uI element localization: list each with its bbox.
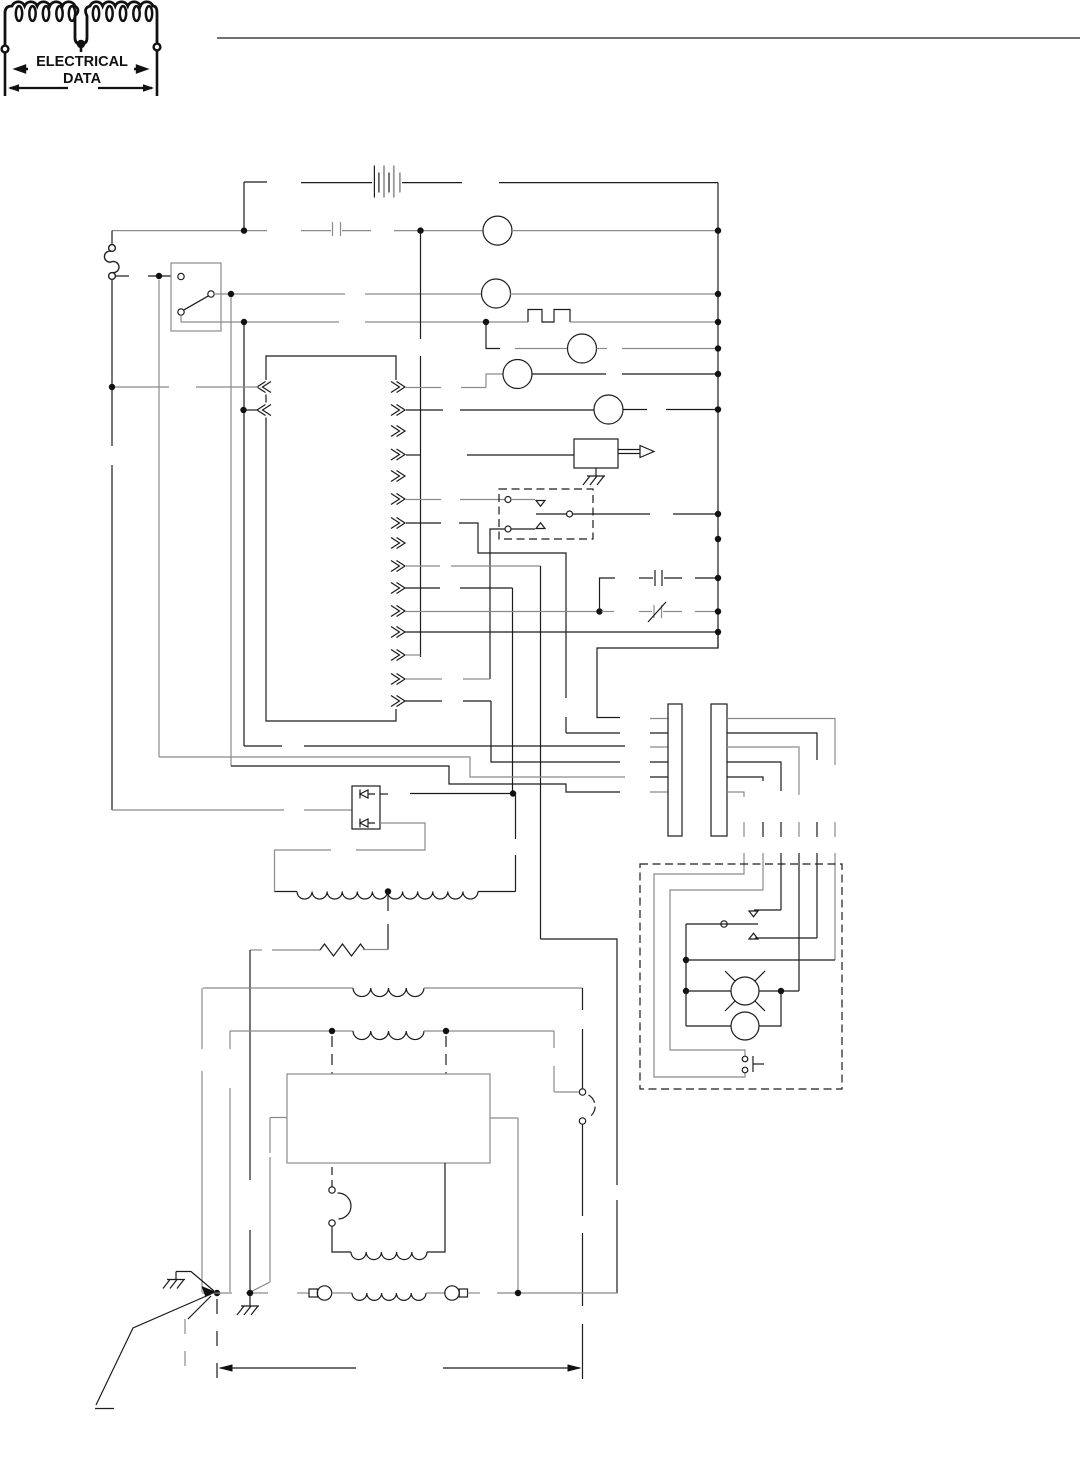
header rule: [217, 37, 1080, 39]
battery B1: [374, 166, 400, 198]
wire L4 to bus: [623, 409, 647, 411]
wire L3 to bus: [532, 373, 607, 375]
U1 right pin 4: [391, 449, 405, 460]
wire pin15 route: [405, 700, 442, 702]
thermal breaker symbol: [528, 310, 570, 323]
dimension line: [220, 1367, 356, 1369]
wire arm drop: [685, 924, 687, 991]
wire row R4 left: [244, 321, 339, 323]
primary coil T3: [351, 1252, 427, 1260]
junction rectifier / pin10 line: [510, 790, 516, 796]
wire gauge row: [686, 1025, 731, 1027]
logo: ELECTRICAL DATA stator emblem: [5, 2, 157, 51]
junction L3 / bus: [715, 371, 721, 377]
bus vertical right: [717, 183, 719, 648]
wire row S-out: [214, 293, 345, 295]
stub connector pin C: [650, 746, 668, 748]
logo span arrow line: [10, 87, 152, 89]
wire pin13 stub: [405, 654, 421, 656]
marker up (remote): [749, 933, 758, 939]
junction stator center tap: [385, 888, 391, 894]
junction R4 / drop B: [483, 319, 489, 325]
secondary coil T4: [332, 1292, 352, 1294]
wire relay NO to pin14: [490, 529, 505, 679]
wire ground row: [202, 1292, 232, 1294]
junction plug row / engine leg: [515, 1290, 521, 1296]
wire engine left stub: [270, 1117, 287, 1119]
wire coil stub B dashed: [445, 1036, 447, 1074]
indicator lamp L5: [731, 977, 759, 1005]
wire harness 1 (to pushbutton low): [727, 792, 744, 797]
junction points / bus: [715, 608, 721, 614]
junction points tap: [596, 608, 602, 614]
capacitor C2: [600, 578, 616, 612]
wire pin10 route down: [405, 587, 440, 589]
wire points to bus: [695, 611, 718, 613]
marker down (remote): [749, 911, 758, 917]
junction coil stub A: [329, 1028, 335, 1034]
wire row B+ left end: [112, 230, 267, 232]
U1 right pin 9: [391, 561, 405, 572]
wire lamp row: [686, 990, 731, 992]
wire harness 5 (to marker up): [727, 733, 817, 760]
connector J1 left shell: [668, 704, 682, 836]
dimension extension dashed left: [216, 1299, 218, 1380]
wire bus elbow stub to connector: [650, 718, 668, 720]
junction ground main: [214, 1290, 220, 1296]
U1 right pin 11: [391, 606, 405, 617]
wire battery row left: [301, 182, 372, 184]
junction row B+ / bus: [715, 227, 721, 233]
wire stator right leg: [515, 794, 517, 840]
capacitor C1: [301, 230, 331, 232]
spark plug PL1: [309, 1289, 318, 1297]
junction lamp row left: [683, 988, 689, 994]
wire pin4 to starter solenoid: [406, 454, 420, 456]
wire pin2 to lamp L4: [406, 409, 443, 411]
wire coil stub A dashed: [331, 1036, 333, 1074]
svg-text:DATA: DATA: [63, 71, 102, 87]
junction fuse row / key-switch drop: [156, 273, 162, 279]
stub connector pin F: [650, 791, 668, 793]
charging coil T2a: [353, 988, 424, 997]
wire row R5 elbow: [486, 322, 500, 349]
wire row R5 mid: [515, 348, 568, 350]
U1 right pin 12: [391, 627, 405, 638]
stub connector pin D: [650, 761, 668, 763]
junction row B+ / sense line: [417, 227, 423, 233]
wire points to primary coil: [332, 1227, 351, 1253]
junction bus spare: [715, 536, 721, 542]
wire R5 to bus: [597, 348, 608, 350]
solenoid output arrow: [618, 446, 654, 458]
wire left vertical feed (fuse line): [111, 280, 113, 446]
kill switch throw arc: [589, 1095, 596, 1117]
wire row C (S-out line) jog: [231, 766, 620, 792]
lamp L3: [503, 360, 532, 389]
wire center tap down: [387, 892, 389, 912]
wire C2 to bus: [695, 577, 718, 579]
junction R4 drop / pin row 2: [240, 407, 246, 413]
diode D1b: [360, 819, 375, 828]
junction R4 drop A: [241, 319, 247, 325]
wire harness 6 (to contact common): [727, 719, 835, 766]
wire pin1 to lamp L3: [406, 387, 441, 389]
U1 left pin 2: [257, 405, 271, 416]
relay marker down: [536, 501, 545, 507]
wire pin9 route down: [405, 565, 440, 567]
wire left vertical from key switch: [158, 280, 160, 757]
wire D1b output: [356, 823, 425, 850]
U1 right pin 13: [391, 650, 405, 661]
wire row A (R4 line) to connector: [244, 745, 282, 747]
U1 right pin 7: [391, 518, 405, 529]
spark plug PL2: [445, 1286, 459, 1300]
wire lighting loop top: [230, 1030, 353, 1032]
wire sense vertical: [420, 231, 422, 339]
wire kill switch down: [582, 1125, 584, 1217]
meter M1: [483, 216, 512, 245]
wire engine left leg: [269, 1118, 271, 1154]
kill switch contact top: [579, 1089, 585, 1095]
wire lamp to harness4: [759, 990, 799, 992]
wire common row: [686, 959, 835, 961]
ignition points S3: [331, 1167, 333, 1187]
stub connector pin E: [650, 776, 668, 778]
wire harness 2 (to pushbutton high): [727, 777, 763, 781]
wire battery row right: [402, 182, 462, 184]
U1 right pin 1: [391, 382, 405, 393]
wire R4 to bus: [570, 321, 718, 323]
U1 right pin 3: [391, 426, 405, 437]
logo short arrows: [16, 66, 28, 72]
U1 right pin 2: [391, 405, 405, 416]
stub connector pin B: [650, 732, 668, 734]
relay marker up: [536, 523, 545, 529]
wire pin6 to relay contact: [406, 499, 441, 501]
junction lamp / gauge: [778, 988, 784, 994]
wire to stator left: [274, 850, 276, 892]
key switch S1 box: [171, 263, 221, 331]
wire engine right stub: [490, 1117, 518, 1119]
kill switch contact bottom: [579, 1118, 585, 1124]
wire pin11 to points: [405, 611, 597, 613]
wire fuse line elbow to rectifier: [112, 809, 284, 811]
ground G2: [249, 1296, 251, 1306]
wire row B+ to bus: [512, 230, 718, 232]
U1 right pin 5: [391, 471, 405, 482]
pushbutton SW2: [742, 1056, 748, 1062]
wire lighting loop right: [424, 1030, 554, 1032]
leader arrow to ground junction: [96, 1294, 211, 1405]
wire relay common to bus: [573, 513, 651, 515]
key switch terminal A: [178, 273, 184, 279]
wire bus bottom elbow: [597, 632, 718, 718]
relay K1 dashed enclosure: [499, 489, 593, 539]
meter M2: [482, 279, 511, 308]
junction relay / bus: [715, 511, 721, 517]
wire primary coil return: [427, 1163, 445, 1252]
inline fuse F1: [109, 245, 116, 252]
relay common: [536, 513, 567, 515]
wire charge loop left leg: [201, 988, 203, 1049]
junction R5 / bus: [715, 345, 721, 351]
ground G-main: [175, 1272, 177, 1280]
lamp L4: [594, 395, 623, 424]
junction S-out drop: [228, 291, 234, 297]
wire row S-out right: [365, 293, 482, 295]
junction C2 / bus: [715, 575, 721, 581]
junction R4 / bus: [715, 319, 721, 325]
connector J1 right shell: [711, 704, 727, 836]
junction S-out / bus: [715, 291, 721, 297]
U1 left pin 1: [257, 382, 271, 393]
wire pin row 1 (fuse feed): [115, 386, 169, 388]
wire left vertical from R4: [243, 325, 245, 746]
gauge G1: [731, 1012, 759, 1040]
remote switch arm: [686, 923, 758, 925]
wire lighting loop left leg: [229, 1031, 231, 1049]
wire pin12 to bus: [405, 631, 718, 633]
ground main junction leader: [176, 1272, 214, 1292]
wire left vertical from S-out: [230, 297, 232, 766]
wire row B+ right: [394, 230, 483, 232]
rectifier module D1: [352, 786, 380, 829]
wire harness 4 (to lamp row): [727, 747, 799, 795]
resistor R1: [250, 949, 262, 951]
U1 right pin 8: [391, 538, 405, 549]
junction fuse line / pin row: [109, 384, 115, 390]
wire charge loop top: [203, 987, 353, 989]
wire resistor drop to ground: [249, 950, 251, 1180]
junction arm / common: [683, 957, 689, 963]
logo center-tap junction: [77, 40, 85, 48]
key switch terminal B: [208, 291, 214, 297]
breaker points P1: [602, 611, 615, 613]
logo left terminal: [2, 46, 9, 53]
wire row B (key line) jog: [159, 757, 625, 777]
wire lighting loop right leg: [553, 1031, 555, 1048]
junction L4 / bus: [715, 406, 721, 412]
wire row R4 mid: [365, 321, 528, 323]
wire charge loop right leg: [582, 988, 584, 1010]
relay contact NO: [505, 526, 511, 532]
key switch lever: [184, 296, 209, 310]
wire harness 3 (to marker down): [727, 762, 781, 791]
wire to spark plug 1: [297, 1292, 309, 1294]
stator winding T1: [275, 891, 298, 893]
wire pin7 row to connector: [566, 732, 620, 734]
wire plug2 out: [468, 1292, 481, 1294]
dimension extension dashed mid: [184, 1319, 186, 1380]
svg-text:ELECTRICAL: ELECTRICAL: [36, 54, 128, 70]
wire pin14 stub: [405, 678, 442, 680]
ground solenoid: [595, 468, 597, 476]
relay contact NC: [505, 497, 511, 503]
wire D1a output: [380, 793, 388, 795]
diode D1a: [360, 790, 375, 799]
engine block: [287, 1074, 490, 1163]
U1 right pin 6: [391, 494, 405, 505]
wire gauge right: [759, 991, 781, 1026]
wire charge loop right: [424, 987, 583, 989]
junction battery stub / row B+: [241, 227, 247, 233]
wire pin row 2 stub: [246, 409, 258, 411]
wire pin7 elbow route: [406, 522, 441, 524]
wire S-out to bus: [510, 293, 718, 295]
wire switch pole to row R4: [181, 315, 244, 322]
controller module U1: [266, 356, 396, 721]
junction coil stub B: [443, 1028, 449, 1034]
remote panel dashed enclosure: [640, 864, 842, 1089]
starter solenoid K2: [574, 439, 618, 468]
junction ground 2: [247, 1290, 253, 1296]
lamp L2: [568, 334, 597, 363]
U1 right pin 10: [391, 583, 405, 594]
wire pin9 jog to coil side: [541, 939, 618, 1185]
lighting coil T2b: [353, 1031, 424, 1040]
junction pin12 / bus: [715, 629, 721, 635]
wire battery row to bus: [499, 182, 718, 184]
key switch pole: [178, 309, 184, 315]
wire fuse output: [116, 275, 129, 277]
logo right terminal: [154, 44, 161, 51]
U1 right pin 15: [391, 696, 405, 707]
U1 right pin 14: [391, 674, 405, 685]
wire engine right leg: [517, 1118, 519, 1292]
wire battery stub: [243, 182, 245, 230]
